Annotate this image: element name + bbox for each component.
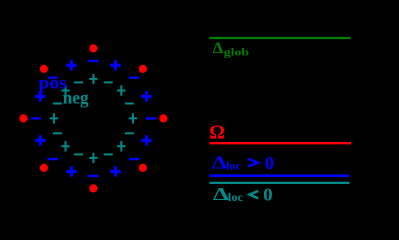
teal minus marker TM4 (angle 247.5)	[74, 153, 83, 155]
blue plus marker BP8 (angle 427.5)	[110, 60, 120, 70]
label Delta_loc<0: less-than	[250, 191, 259, 199]
blue plus marker BP4 (angle 247.5)	[66, 166, 76, 176]
blue plus marker BP6 (angle 337.5)	[141, 135, 151, 145]
teal minus marker TM7 (angle 382.5)	[125, 103, 134, 105]
teal minus marker TM2 (angle 157.5)	[53, 103, 62, 105]
teal plus marker TP2 (angle 135)	[61, 85, 69, 95]
teal minus marker TM6 (angle 337.5)	[125, 132, 134, 134]
blue plus marker BP1 (angle 112.5)	[66, 60, 76, 70]
red dot D6 (angle 315)	[139, 164, 147, 172]
teal plus marker TP3 (angle 180)	[50, 113, 58, 123]
teal minus marker TM3 (angle 202.5)	[53, 132, 62, 134]
blue minus marker BM6 (angle 315)	[129, 158, 139, 160]
svg-text:0: 0	[265, 153, 274, 173]
svg-text:neg: neg	[63, 88, 89, 108]
green line Delta_glob level	[210, 37, 351, 39]
teal minus marker TM5 (angle 292.5)	[104, 153, 113, 155]
blue minus marker BM1 (angle 90)	[88, 60, 98, 62]
blue minus marker BM8 (angle 405)	[129, 77, 139, 79]
teal plus marker TP4 (angle 225)	[61, 141, 69, 151]
teal plus marker TP6 (angle 315)	[117, 141, 125, 151]
teal line Delta_loc<0 level	[210, 182, 350, 184]
blue minus marker BM4 (angle 225)	[48, 158, 58, 160]
red dot D8 (angle 405)	[139, 65, 147, 73]
red dot D7 (angle 360)	[159, 114, 167, 122]
blue minus marker BM3 (angle 180)	[31, 117, 41, 119]
teal plus marker TP1 (angle 90)	[89, 74, 97, 84]
svg-text:Ω: Ω	[209, 123, 225, 144]
blue plus marker BP7 (angle 382.5)	[141, 91, 151, 101]
blue plus marker BP3 (angle 202.5)	[35, 135, 45, 145]
svg-text:Δ: Δ	[213, 40, 224, 57]
svg-text:loc: loc	[226, 161, 241, 173]
red line Omega level	[210, 142, 352, 144]
red dot D2 (angle 135)	[40, 65, 48, 73]
red dot D3 (angle 180)	[19, 114, 27, 122]
blue minus marker BM2 (angle 135)	[48, 77, 58, 79]
teal plus marker TP8 (angle 405)	[117, 85, 125, 95]
blue minus marker BM7 (angle 360)	[146, 117, 156, 119]
label Delta_loc>0: greater-than	[248, 159, 258, 167]
blue line Delta_loc>0 level	[210, 174, 350, 177]
red dot D4 (angle 225)	[40, 164, 48, 172]
teal minus marker TM8 (angle 427.5)	[104, 81, 113, 83]
teal plus marker TP7 (angle 360)	[129, 113, 137, 123]
teal minus marker TM1 (angle 112.5)	[74, 81, 83, 83]
teal plus marker TP5 (angle 270)	[89, 153, 97, 163]
svg-text:loc: loc	[228, 192, 243, 204]
svg-text:0: 0	[263, 184, 273, 204]
red dot D5 (angle 270)	[89, 184, 97, 192]
blue plus marker BP5 (angle 292.5)	[110, 166, 120, 176]
blue minus marker BM5 (angle 270)	[88, 175, 98, 177]
svg-text:Δ: Δ	[213, 184, 229, 204]
svg-text:Δ: Δ	[212, 153, 227, 173]
red dot D1 (angle 90)	[89, 44, 97, 52]
svg-text:glob: glob	[224, 47, 249, 59]
blue plus marker BP2 (angle 157.5)	[35, 91, 45, 101]
